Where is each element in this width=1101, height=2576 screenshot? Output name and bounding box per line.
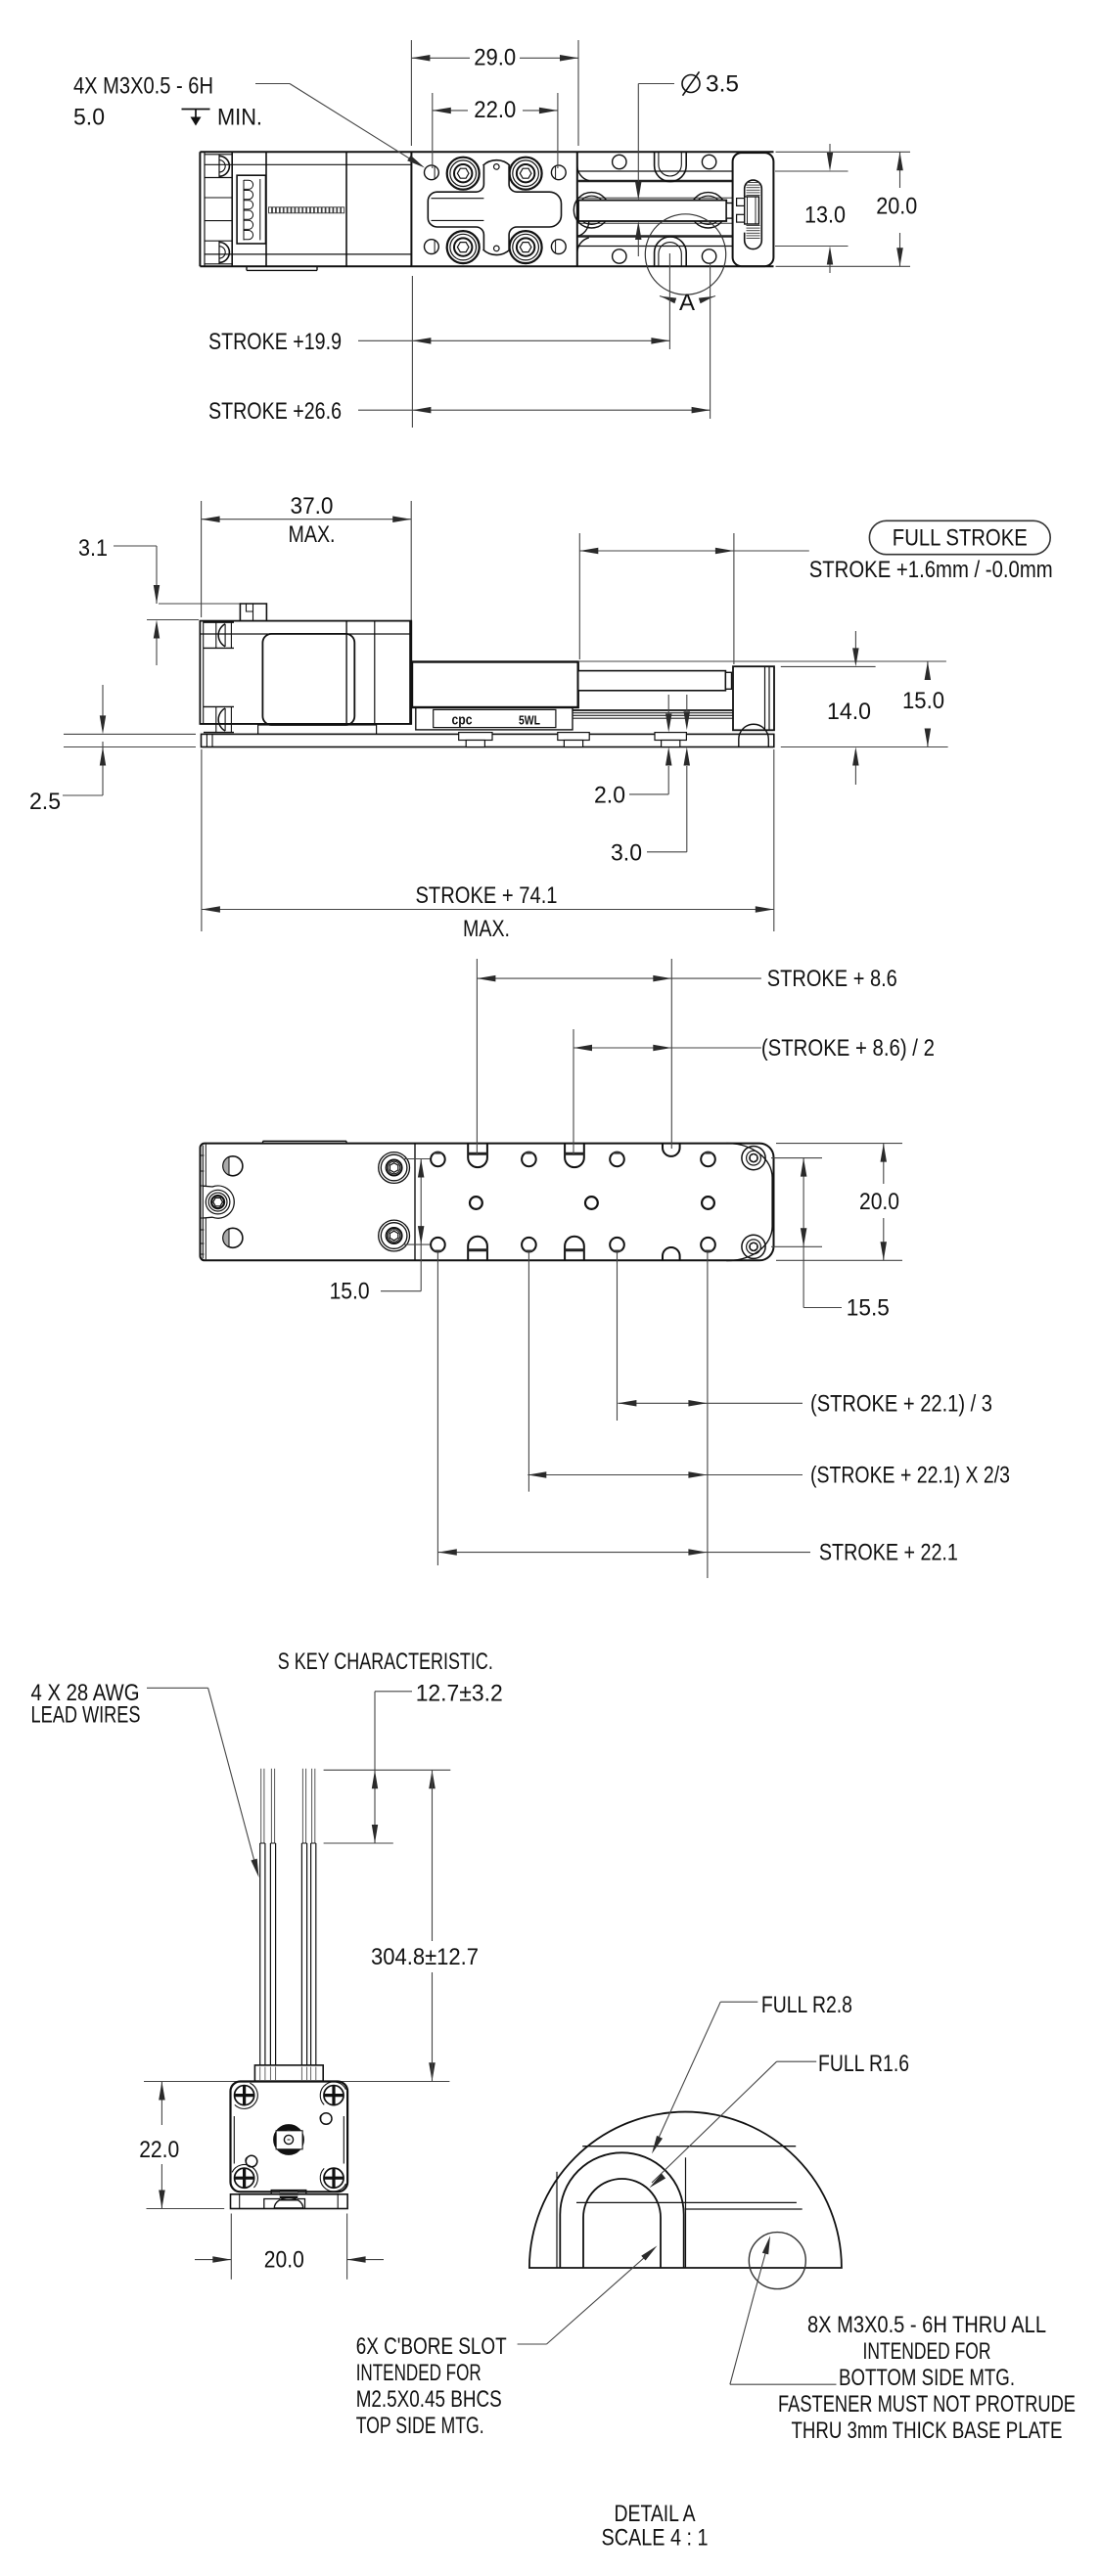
svg-text:2.0: 2.0: [594, 783, 625, 809]
svg-text:6X C'BORE SLOT: 6X C'BORE SLOT: [356, 2333, 507, 2360]
svg-text:8X M3X0.5 - 6H THRU ALL: 8X M3X0.5 - 6H THRU ALL: [807, 2312, 1046, 2338]
svg-text:INTENDED FOR: INTENDED FOR: [356, 2360, 482, 2386]
svg-text:12.7±3.2: 12.7±3.2: [416, 1681, 503, 1707]
svg-text:INTENDED FOR: INTENDED FOR: [863, 2338, 991, 2365]
svg-text:2.5: 2.5: [29, 789, 61, 815]
svg-text:29.0: 29.0: [474, 45, 516, 71]
svg-text:MIN.: MIN.: [217, 105, 262, 131]
svg-text:FASTENER MUST NOT PROTRUDE: FASTENER MUST NOT PROTRUDE: [778, 2391, 1076, 2418]
svg-text:3.1: 3.1: [78, 535, 108, 562]
svg-text:20.0: 20.0: [859, 1189, 899, 1215]
svg-text:FULL R1.6: FULL R1.6: [818, 2051, 909, 2077]
svg-text:3.5: 3.5: [706, 71, 739, 98]
svg-text:37.0: 37.0: [291, 493, 334, 520]
svg-text:22.0: 22.0: [474, 97, 516, 123]
svg-text:20.0: 20.0: [264, 2247, 304, 2274]
svg-text:3.0: 3.0: [611, 840, 642, 867]
svg-text:22.0: 22.0: [139, 2137, 179, 2163]
svg-text:M2.5X0.45 BHCS: M2.5X0.45 BHCS: [356, 2386, 502, 2413]
svg-text:13.0: 13.0: [804, 203, 846, 229]
svg-text:BOTTOM SIDE MTG.: BOTTOM SIDE MTG.: [839, 2365, 1015, 2391]
svg-text:LEAD WIRES: LEAD WIRES: [31, 1702, 141, 1729]
svg-text:STROKE + 74.1: STROKE + 74.1: [416, 882, 558, 909]
svg-text:SCALE 4 : 1: SCALE 4 : 1: [602, 2524, 709, 2551]
svg-text:(STROKE + 8.6) / 2: (STROKE + 8.6) / 2: [761, 1035, 935, 1062]
svg-text:cpc: cpc: [452, 712, 473, 729]
svg-text:MAX.: MAX.: [289, 521, 336, 548]
svg-text:DETAIL A: DETAIL A: [615, 2501, 696, 2527]
svg-text:FULL STROKE: FULL STROKE: [893, 525, 1028, 552]
svg-text:(STROKE + 22.1) / 3: (STROKE + 22.1) / 3: [810, 1390, 992, 1417]
svg-text:20.0: 20.0: [876, 194, 917, 220]
svg-text:FULL R2.8: FULL R2.8: [761, 1992, 852, 2018]
svg-text:4X M3X0.5 - 6H: 4X M3X0.5 - 6H: [73, 73, 213, 100]
svg-text:MAX.: MAX.: [463, 916, 510, 942]
svg-text:STROKE +1.6mm / -0.0mm: STROKE +1.6mm / -0.0mm: [809, 557, 1053, 583]
svg-text:5.0: 5.0: [73, 105, 105, 131]
svg-text:STROKE +26.6: STROKE +26.6: [208, 398, 342, 425]
svg-text:5WL: 5WL: [519, 713, 540, 728]
svg-text:(STROKE + 22.1) X 2/3: (STROKE + 22.1) X 2/3: [810, 1463, 1010, 1489]
svg-text:15.0: 15.0: [902, 688, 944, 714]
svg-text:15.0: 15.0: [330, 1279, 370, 1305]
svg-text:STROKE + 22.1: STROKE + 22.1: [819, 1540, 958, 1566]
svg-text:A: A: [679, 290, 695, 316]
svg-text:304.8±12.7: 304.8±12.7: [371, 1944, 479, 1970]
svg-text:STROKE + 8.6: STROKE + 8.6: [767, 966, 897, 992]
svg-text:15.5: 15.5: [847, 1295, 890, 1322]
svg-text:S KEY CHARACTERISTIC.: S KEY CHARACTERISTIC.: [278, 1649, 493, 1675]
svg-text:STROKE +19.9: STROKE +19.9: [208, 329, 342, 355]
svg-text:THRU 3mm THICK BASE PLATE: THRU 3mm THICK BASE PLATE: [792, 2418, 1063, 2444]
svg-text:14.0: 14.0: [827, 699, 871, 725]
svg-text:TOP SIDE MTG.: TOP SIDE MTG.: [356, 2413, 484, 2439]
